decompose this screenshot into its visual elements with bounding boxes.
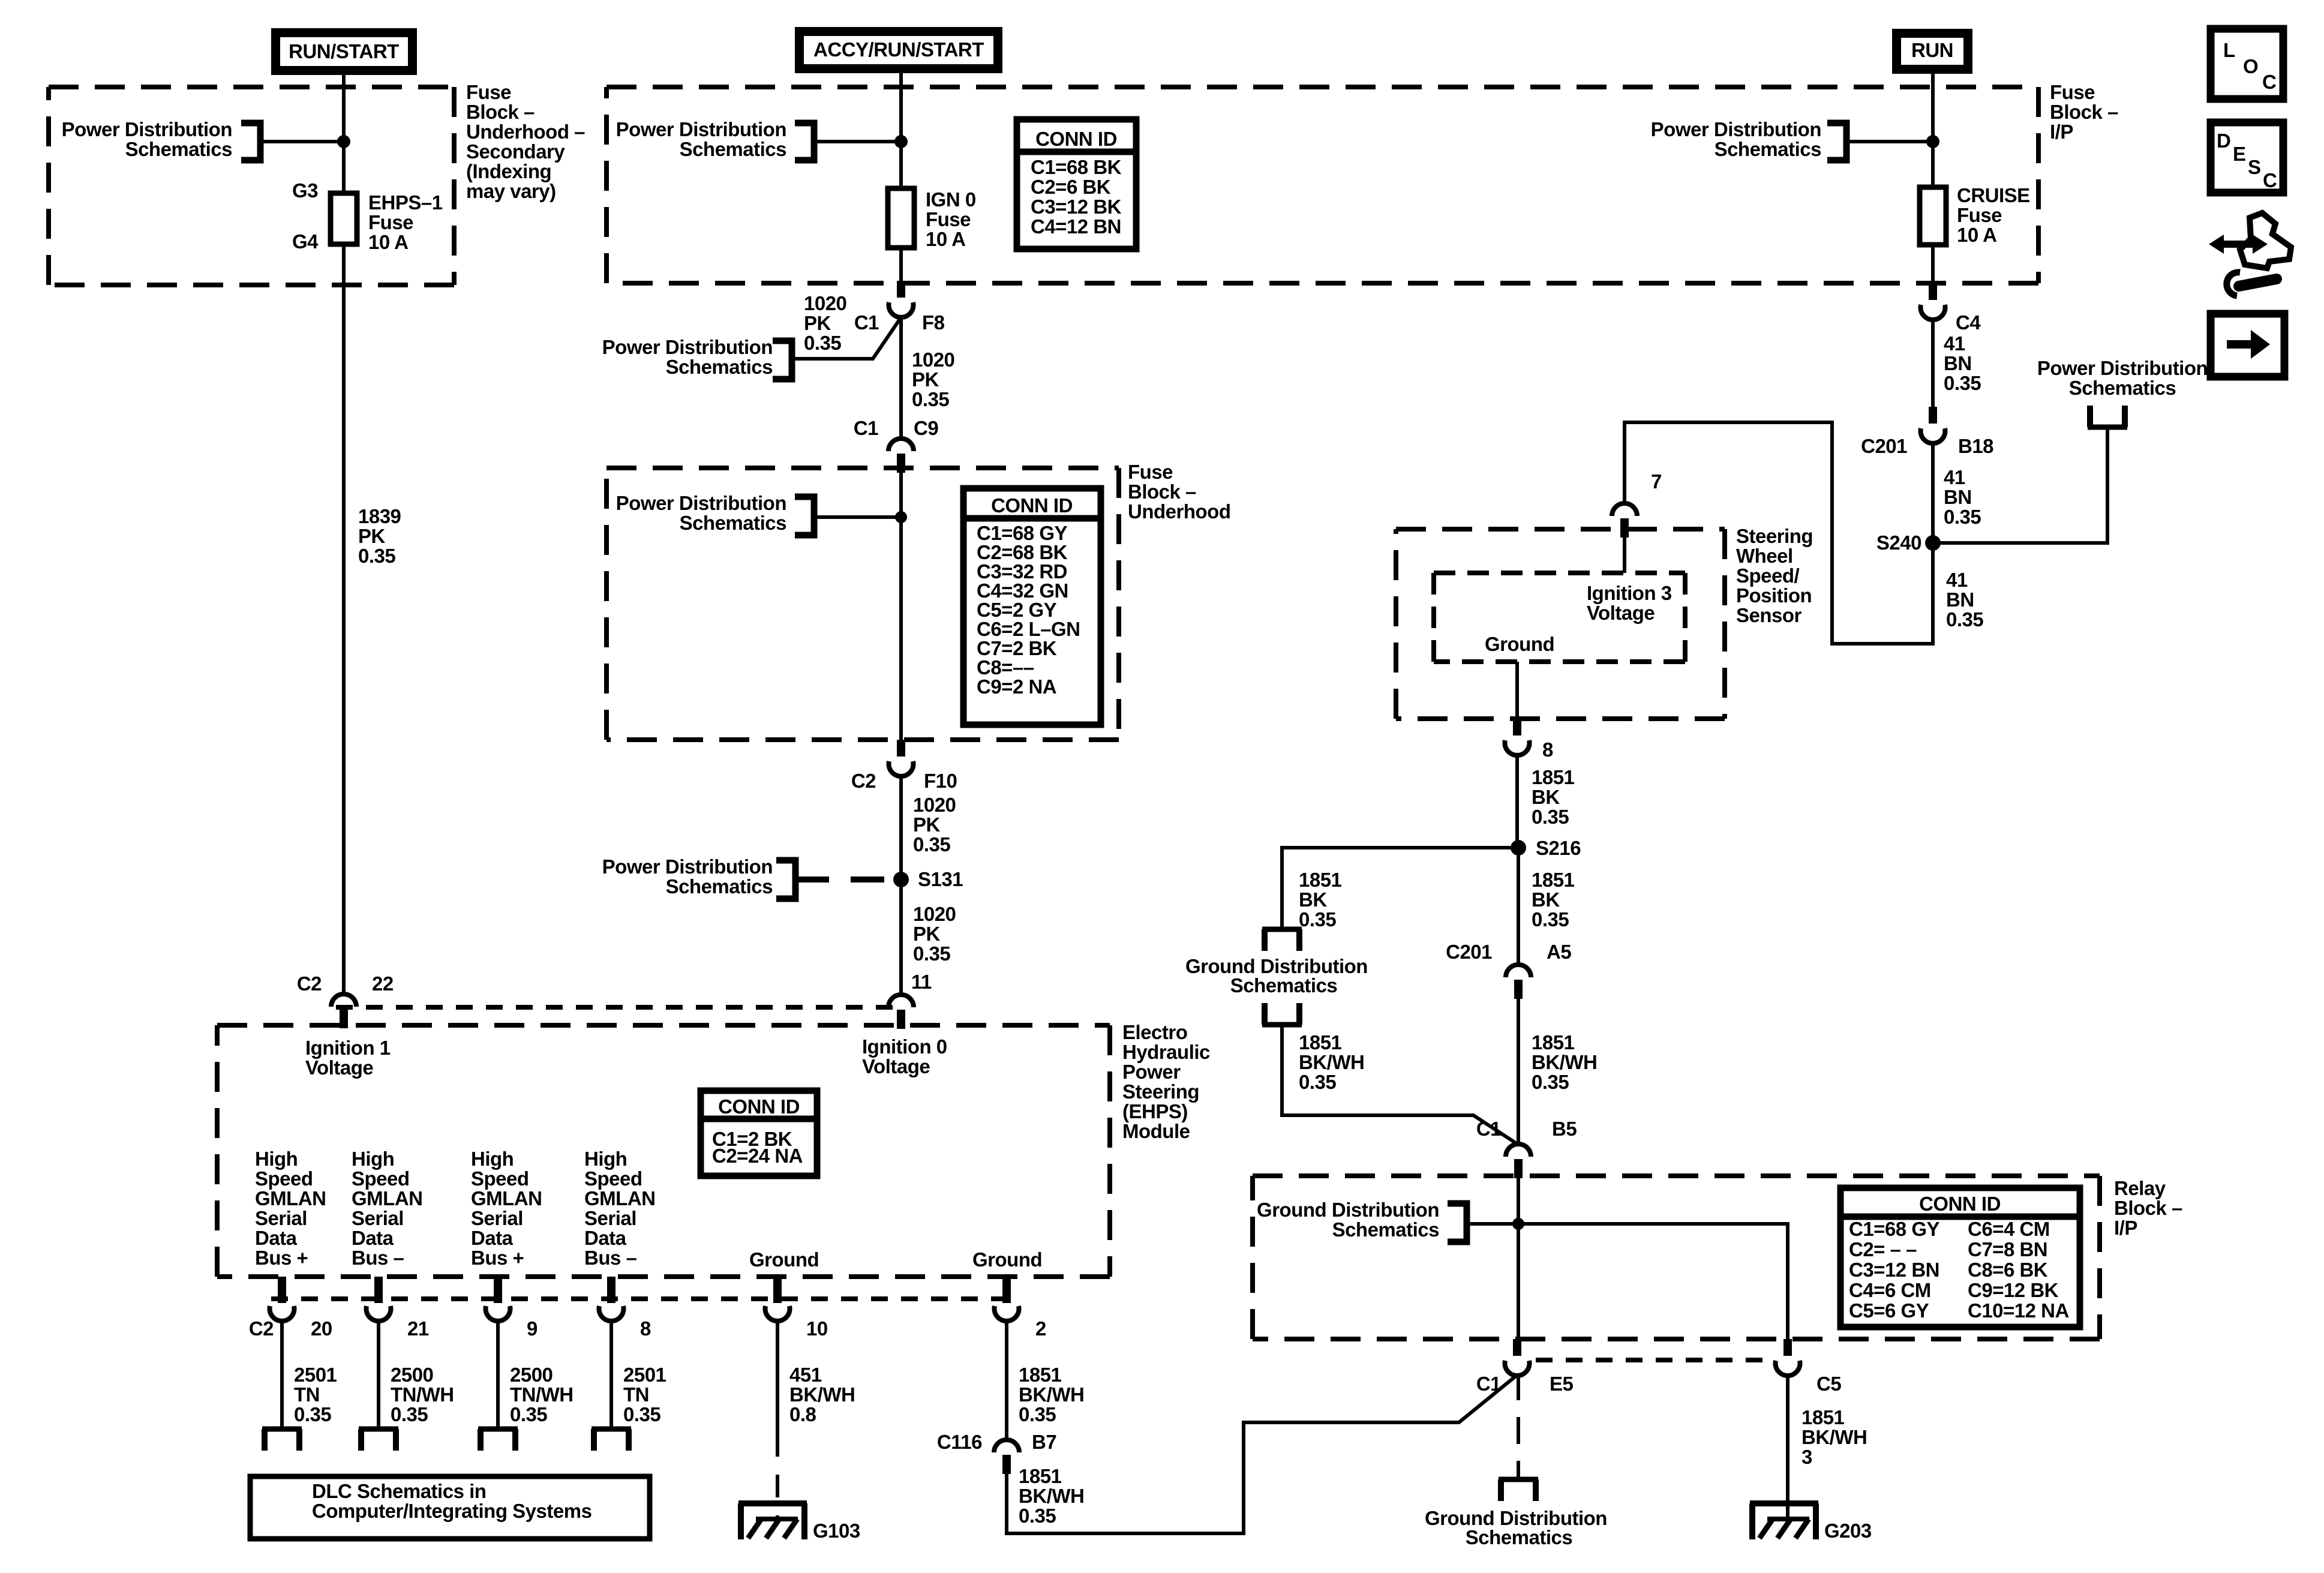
svg-text:11: 11 [911,971,932,993]
svg-text:41: 41 [1944,466,1965,488]
svg-text:Bus +: Bus + [255,1247,308,1269]
svg-text:Ignition 1: Ignition 1 [305,1037,391,1059]
svg-text:EHPS–1: EHPS–1 [368,191,443,214]
svg-text:TN/WH: TN/WH [510,1383,574,1406]
svg-text:E: E [2233,143,2246,165]
svg-text:(Indexing: (Indexing [466,160,551,182]
svg-text:Power Distribution: Power Distribution [616,118,786,140]
svg-text:TN/WH: TN/WH [391,1383,454,1406]
svg-text:1851: 1851 [1532,766,1575,788]
connector EHPS pin 2 [1002,1277,1011,1303]
svg-text:Ground: Ground [972,1248,1042,1271]
power label RUN/START [271,28,417,75]
wire relay bracket to node [1467,1222,1518,1226]
svg-text:C1: C1 [1476,1118,1501,1140]
svg-text:0.35: 0.35 [623,1403,660,1425]
svg-text:D: D [2217,130,2230,152]
svg-text:1851: 1851 [1801,1406,1845,1428]
connector C116/B7 [994,1440,1019,1452]
svg-text:9: 9 [527,1317,538,1340]
connector C4 fuse block IP output [1929,283,1937,300]
svg-text:0.35: 0.35 [1299,1071,1336,1093]
svg-text:BK/WH: BK/WH [1532,1051,1597,1073]
offpage stub below E5 [1499,1477,1538,1482]
svg-text:10 A: 10 A [368,231,408,253]
svg-text:High: High [352,1148,394,1170]
fuse CRUISE 10A [1920,187,1946,245]
wire ACCY to IGN0 fuse [899,73,903,188]
svg-text:I/P: I/P [2114,1217,2137,1239]
svg-text:20: 20 [311,1317,332,1340]
dotted connector face relay bottom [1536,1358,1770,1362]
wire run bracket to node [1846,140,1933,143]
svg-text:C5: C5 [1816,1373,1841,1395]
svg-text:Ground: Ground [749,1248,819,1271]
svg-text:Serial: Serial [255,1207,307,1229]
svg-text:451: 451 [789,1364,822,1386]
svg-text:Power Distribution: Power Distribution [62,118,232,140]
dashed wire to G103 [776,1434,779,1519]
icon wrench [2239,279,2277,286]
svg-text:1020: 1020 [913,903,956,925]
svg-text:Module: Module [1122,1120,1190,1142]
svg-text:0.35: 0.35 [358,545,395,567]
dashed wire bracket to S131 [795,876,898,882]
wire A5 to B5 [1517,996,1520,1143]
wire sensor ground internal [1515,662,1519,719]
connector C1/B5 into relay block [1506,1144,1531,1157]
svg-text:DLC Schematics in: DLC Schematics in [312,1480,486,1502]
svg-text:High: High [584,1148,627,1170]
svg-text:Speed: Speed [352,1167,410,1190]
svg-text:Ignition 3: Ignition 3 [1587,582,1672,604]
connector EHPS pin 8 [607,1277,615,1303]
svg-text:Sensor: Sensor [1736,604,1802,626]
conn id table fuse block underhood [963,488,1101,725]
junction dot relay ground [1512,1218,1524,1230]
connector sensor pin 7 [1612,503,1637,516]
icon box arrow right [2211,314,2284,377]
icon box DESC [2211,122,2283,193]
svg-text:Power Distribution: Power Distribution [602,336,773,358]
svg-text:Speed: Speed [584,1167,642,1190]
svg-text:L: L [2223,39,2235,61]
svg-text:0.35: 0.35 [1019,1403,1056,1425]
svg-text:1851: 1851 [1532,1031,1575,1053]
dashed box fuse block underhood [606,466,1119,470]
svg-text:Block –: Block – [2114,1197,2182,1219]
svg-text:TN: TN [623,1383,649,1406]
svg-text:C: C [2263,169,2277,191]
svg-text:GMLAN: GMLAN [471,1187,542,1209]
svg-text:8: 8 [1542,739,1553,761]
svg-text:BK/WH: BK/WH [1019,1485,1084,1507]
svg-text:C9=2 NA: C9=2 NA [977,676,1056,698]
svg-text:Schematics: Schematics [680,512,786,534]
svg-text:G103: G103 [813,1520,860,1542]
svg-text:High: High [255,1148,298,1170]
wire pin7 into sensor [1623,534,1626,573]
svg-text:0.35: 0.35 [804,332,841,354]
svg-text:I/P: I/P [2050,121,2073,143]
svg-text:C1: C1 [854,417,878,439]
ground G103 [738,1500,807,1506]
wire B5 through relay block [1517,1176,1520,1339]
svg-text:1851: 1851 [1019,1465,1062,1487]
svg-text:0.35: 0.35 [1532,908,1569,930]
splice S240 [1925,535,1941,551]
svg-text:S131: S131 [918,868,963,890]
svg-text:BN: BN [1944,486,1972,508]
connector C1/E5 relay output [1513,1339,1521,1356]
svg-text:1851: 1851 [1299,1031,1342,1053]
svg-text:1020: 1020 [912,349,954,371]
svg-text:2501: 2501 [623,1364,666,1386]
wire pin 9 to DLC [496,1319,500,1429]
svg-text:Wheel: Wheel [1736,545,1793,567]
svg-text:C1: C1 [1476,1373,1501,1395]
svg-text:0.35: 0.35 [510,1403,547,1425]
svg-text:C4: C4 [1956,311,1981,334]
svg-text:C2: C2 [297,972,322,995]
dashed box steering wheel speed position sensor [1396,527,1725,532]
svg-text:Serial: Serial [584,1207,636,1229]
svg-text:Power Distribution: Power Distribution [2037,357,2208,379]
svg-text:IGN 0: IGN 0 [926,188,976,211]
wire B18 to S240 [1931,441,1935,543]
bracket relay ground distribution [1448,1203,1467,1242]
svg-text:C2=6 BK: C2=6 BK [1031,176,1111,198]
svg-text:BK/WH: BK/WH [1801,1426,1867,1448]
svg-text:Steering: Steering [1122,1080,1199,1103]
ground G203 [1750,1500,1818,1506]
svg-text:GMLAN: GMLAN [255,1187,326,1209]
svg-text:PK: PK [913,923,941,945]
svg-text:Schematics: Schematics [1466,1526,1572,1548]
svg-text:GMLAN: GMLAN [584,1187,655,1209]
conn id table EHPS module [701,1091,817,1176]
svg-text:GMLAN: GMLAN [352,1187,422,1209]
connector C201/B18 [1929,407,1937,424]
svg-text:2: 2 [1035,1317,1046,1340]
dotted connector face EHPS bottom [271,1296,1020,1301]
svg-text:0.35: 0.35 [913,942,950,965]
dashed box relay block IP [1253,1173,2100,1178]
svg-text:2500: 2500 [391,1364,433,1386]
connector EHPS pin 10 [773,1277,782,1303]
svg-text:G3: G3 [292,179,318,202]
svg-text:Schematics: Schematics [1332,1218,1439,1241]
connector C201/A5 [1506,965,1531,977]
wire S216 left branch [1282,848,1518,929]
svg-text:F10: F10 [924,770,957,792]
svg-text:BN: BN [1944,352,1972,374]
svg-text:S216: S216 [1536,837,1581,859]
svg-text:ACCY/RUN/START: ACCY/RUN/START [813,38,984,61]
svg-text:G203: G203 [1824,1520,1872,1542]
svg-text:Ground Distribution: Ground Distribution [1257,1199,1439,1221]
svg-text:E5: E5 [1550,1373,1574,1395]
svg-text:0.35: 0.35 [912,388,949,410]
connector C2 pin 22 into EHPS module [331,994,356,1007]
svg-text:B5: B5 [1552,1118,1577,1140]
wire 1839 PK from fuse to EHPS module pin 22 [342,244,346,993]
svg-text:Schematics: Schematics [1230,974,1337,996]
junction dot run feed [1926,135,1939,148]
svg-text:CONN ID: CONN ID [1035,128,1117,150]
svg-text:Serial: Serial [471,1207,523,1229]
svg-text:C2: C2 [851,770,876,792]
svg-text:PK: PK [358,525,386,547]
svg-text:C7=8 BN: C7=8 BN [1968,1238,2047,1260]
wire accy bracket to node [814,140,901,143]
connector sensor pin 8 [1513,719,1521,736]
svg-text:0.35: 0.35 [1532,806,1569,828]
svg-text:C5=6 GY: C5=6 GY [1849,1299,1929,1322]
svg-text:C6=4 CM: C6=4 CM [1968,1218,2050,1240]
junction dot accy feed [894,135,908,148]
svg-text:1020: 1020 [913,794,956,816]
svg-text:CRUISE: CRUISE [1957,184,2030,206]
svg-text:O: O [2243,55,2258,77]
connector EHPS pin 20 [278,1277,286,1303]
svg-text:BK/WH: BK/WH [1299,1051,1364,1073]
svg-text:C1=68 BK: C1=68 BK [1031,156,1122,178]
connector EHPS pin 21 [374,1277,383,1303]
offpage stub ground distribution (up) [1262,1022,1302,1028]
svg-text:3: 3 [1801,1446,1812,1468]
junction dot at RUN/START feed [337,135,350,148]
svg-text:C2=24 NA: C2=24 NA [712,1145,803,1167]
svg-text:BK: BK [1532,888,1560,911]
svg-text:Fuse: Fuse [926,208,971,230]
svg-text:Schematics: Schematics [666,875,773,897]
svg-text:22: 22 [372,972,394,995]
svg-text:0.35: 0.35 [1019,1505,1056,1527]
svg-text:S: S [2248,156,2261,178]
svg-text:1851: 1851 [1532,869,1575,891]
junction dot underhood feed [895,511,907,523]
svg-text:Voltage: Voltage [862,1055,930,1077]
svg-text:Data: Data [352,1227,394,1249]
svg-text:10: 10 [806,1317,828,1340]
svg-text:8: 8 [640,1317,651,1340]
svg-text:C9: C9 [914,417,938,439]
svg-text:Bus –: Bus – [584,1247,637,1269]
fuse EHPS-1 10A [331,193,357,244]
wire C9 to F10 [899,469,903,740]
svg-text:Data: Data [471,1227,514,1249]
svg-text:2501: 2501 [294,1364,337,1386]
svg-text:CONN ID: CONN ID [1919,1193,2001,1215]
dashed wire E5 to ground distribution [1517,1373,1520,1479]
wire underhood bracket to node [814,515,901,519]
svg-text:Schematics: Schematics [125,138,232,160]
svg-text:B18: B18 [1958,435,1993,457]
wire S216 to A5 [1517,848,1520,964]
connector C1/C9 into fuse block underhood [888,439,914,451]
svg-text:41: 41 [1946,569,1968,591]
svg-text:1839: 1839 [358,505,401,527]
svg-text:1020: 1020 [804,292,846,314]
svg-text:0.35: 0.35 [913,833,950,855]
svg-text:0.35: 0.35 [1944,506,1981,528]
conn id table fuse block IP [1017,119,1136,249]
svg-text:41: 41 [1944,332,1965,355]
svg-text:may vary): may vary) [466,180,556,202]
wire RUN/START to EHPS-1 fuse [342,75,346,193]
svg-text:7: 7 [1651,470,1662,493]
svg-text:10 A: 10 A [926,228,965,250]
icon connector outline [2240,213,2291,268]
svg-text:C9=12 BK: C9=12 BK [1968,1279,2059,1301]
svg-text:0.35: 0.35 [1532,1071,1569,1093]
svg-text:BK/WH: BK/WH [1019,1383,1084,1406]
bracket to power distribution schematics [241,123,260,160]
svg-text:G4: G4 [292,230,319,253]
bracket underhood tap [795,497,814,535]
dashed box fuse block underhood secondary [49,85,454,89]
svg-text:Fuse: Fuse [368,211,413,233]
wire pin 8 to DLC [609,1319,613,1429]
svg-text:PK: PK [804,312,831,334]
svg-text:1851: 1851 [1019,1364,1062,1386]
wire pin 10 ground [776,1319,779,1434]
svg-text:0.35: 0.35 [1946,608,1983,631]
svg-text:1851: 1851 [1299,869,1342,891]
svg-text:C2= – –: C2= – – [1849,1238,1917,1260]
bracket F8 tap [773,341,792,379]
svg-text:Position: Position [1736,584,1812,607]
icon box LOC [2211,29,2283,99]
svg-text:F8: F8 [922,311,945,334]
fuse IGN 0 10A [888,188,914,248]
dotted connector face EHPS top [336,1005,894,1010]
svg-text:Data: Data [584,1227,627,1249]
svg-text:Schematics: Schematics [666,356,773,378]
svg-text:(EHPS): (EHPS) [1122,1100,1188,1122]
svg-text:Data: Data [255,1227,298,1249]
svg-text:Fuse: Fuse [2050,81,2095,103]
svg-text:21: 21 [407,1317,429,1340]
wire pin 20 to DLC [280,1319,284,1429]
svg-text:Block –: Block – [2050,101,2118,123]
connector C1/F8 fuse block output [897,281,905,298]
svg-text:TN: TN [294,1383,320,1406]
bracket run power distribution [1827,123,1846,160]
svg-text:BN: BN [1946,589,1974,611]
svg-text:Underhood: Underhood [1128,500,1230,523]
wire relay node to C5 [1518,1224,1788,1339]
dashed box fuse block I/P (top) [606,85,2038,89]
wire pin 21 to DLC [377,1319,380,1429]
svg-text:CONN ID: CONN ID [718,1095,800,1118]
svg-text:PK: PK [913,813,941,836]
svg-text:Fuse: Fuse [1128,461,1173,483]
svg-text:2500: 2500 [510,1364,553,1386]
connector C2/F10 underhood output [897,740,905,757]
icon double arrow [2222,241,2254,248]
svg-text:Schematics: Schematics [2069,377,2176,399]
offpage stub pin 9 [478,1427,518,1432]
wire F8 tap diagonal [792,317,901,359]
wire F8 to C9 [899,315,903,438]
svg-text:Ignition 0: Ignition 0 [862,1035,947,1058]
wire bracket to node [260,140,344,143]
offpage stub pin 20 [262,1427,302,1432]
svg-text:Fuse: Fuse [1957,204,2002,226]
svg-text:C1: C1 [854,311,879,334]
wire RUN to CRUISE fuse [1931,74,1935,187]
svg-text:RUN/START: RUN/START [289,40,399,62]
inner dashed box sensor [1434,571,1685,575]
svg-text:Voltage: Voltage [305,1056,373,1079]
offpage stub pin 21 [359,1427,398,1432]
bracket accy power distribution [795,123,814,160]
svg-text:Underhood –: Underhood – [466,121,585,143]
svg-text:Steering: Steering [1736,525,1813,547]
connector EHPS pin 9 [494,1277,502,1303]
svg-text:10 A: 10 A [1957,224,1996,246]
svg-text:0.35: 0.35 [1944,372,1981,394]
splice S216 [1511,840,1526,855]
svg-text:C1=68 GY: C1=68 GY [1849,1218,1939,1240]
svg-text:C2: C2 [249,1317,274,1340]
dashed box EHPS module [217,1023,1110,1028]
wire C4 to B18 [1931,317,1935,407]
svg-text:Power Distribution: Power Distribution [616,492,786,514]
power label RUN [1892,29,1972,74]
svg-text:Power: Power [1122,1061,1181,1083]
svg-text:S240: S240 [1876,532,1921,554]
connector pin 11 into EHPS module [888,995,914,1007]
svg-text:Fuse: Fuse [466,81,511,103]
svg-text:Speed/: Speed/ [1736,565,1800,587]
svg-text:Power Distribution: Power Distribution [602,855,773,878]
wire pin 2 to C116 [1005,1319,1008,1439]
wire C5 to G203 [1786,1373,1789,1519]
wire S240 to sensor pin 7 [1625,422,1933,644]
wire ground distribution to B5 [1282,1025,1518,1145]
svg-text:RUN: RUN [1911,39,1953,61]
wire CRUISE fuse to C4 [1931,245,1935,283]
wire pin 8 to S216 [1515,753,1519,848]
svg-text:Ground: Ground [1485,633,1554,655]
svg-text:C201: C201 [1446,941,1492,963]
offpage stub pin 8 [591,1427,631,1432]
svg-text:Electro: Electro [1122,1021,1187,1043]
svg-text:B7: B7 [1032,1431,1056,1453]
svg-text:Block –: Block – [466,101,535,123]
bracket S131 tap [776,860,795,899]
svg-text:Schematics: Schematics [1715,138,1821,160]
offpage stub ground distribution (down) [1262,927,1302,932]
svg-text:Block –: Block – [1128,481,1196,503]
svg-text:CONN ID: CONN ID [991,494,1073,517]
svg-text:C4=12 BN: C4=12 BN [1031,215,1121,238]
svg-text:C201: C201 [1861,435,1907,457]
offpage stub S240 branch [2088,425,2127,430]
box DLC Schematics [250,1476,650,1539]
svg-text:Speed: Speed [471,1167,529,1190]
svg-text:PK: PK [912,368,939,391]
svg-text:0.8: 0.8 [789,1403,816,1425]
svg-text:Schematics: Schematics [680,138,786,160]
wire B7 to relay block E5 [1007,1375,1517,1533]
svg-text:Computer/Integrating Systems: Computer/Integrating Systems [312,1500,591,1522]
wire S240 branch [1933,427,2107,543]
svg-text:BK/WH: BK/WH [789,1383,855,1406]
